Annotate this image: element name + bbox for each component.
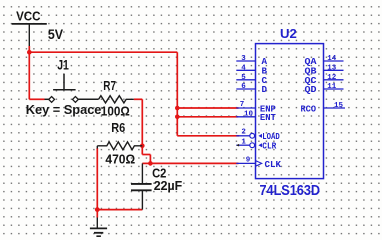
- actuator stem: [63, 74, 65, 90]
- wire jog to CLK node: [142, 154, 150, 156]
- svg-text:ENT: ENT: [260, 112, 276, 123]
- pin 1 stub: [236, 144, 249, 146]
- svg-text:R6: R6: [111, 121, 125, 135]
- pin 10 stub: [236, 116, 255, 118]
- pin 13 stub: [324, 69, 344, 71]
- svg-text:12: 12: [327, 74, 337, 82]
- ground: [90, 218, 107, 237]
- wire VCC to rail (red): [29, 46, 239, 218]
- svg-text:5: 5: [241, 74, 246, 82]
- wire VCC down to switch J1: [28, 52, 30, 99]
- capacitor C2: [131, 163, 152, 209]
- switch terminal diamond left: [49, 97, 55, 103]
- wire R6 left down to ground: [96, 148, 98, 210]
- pin 11 stub: [324, 88, 344, 90]
- svg-text:3: 3: [241, 55, 246, 63]
- pin name ~LOAD arrow: [258, 134, 262, 138]
- R6 left corner stub: [96, 146, 98, 149]
- svg-text:14: 14: [327, 55, 337, 63]
- pin 12 stub: [324, 79, 344, 81]
- svg-text:100Ω: 100Ω: [101, 104, 130, 119]
- svg-text:5V: 5V: [48, 27, 63, 42]
- svg-text:4: 4: [241, 64, 246, 72]
- wire R7 to R6/C2 column: [134, 98, 143, 100]
- left lead: [45, 98, 49, 100]
- svg-text:470Ω: 470Ω: [105, 151, 135, 166]
- switch J1: [45, 74, 99, 100]
- op IC U2 74LS163D body: [256, 44, 324, 179]
- svg-text:QD: QD: [305, 84, 318, 95]
- pin 7 stub: [236, 107, 255, 109]
- right lead: [78, 98, 98, 100]
- svg-text:RCO: RCO: [301, 103, 317, 114]
- svg-text:R7: R7: [103, 79, 116, 93]
- switch terminal diamond right: [73, 97, 79, 103]
- wire to pin 9 CLK: [150, 162, 238, 164]
- wire C2 bottom to ground rail: [97, 209, 142, 211]
- pin 1 active-low bubble: [250, 143, 255, 148]
- pin 3 stub: [236, 60, 255, 62]
- svg-text:D: D: [262, 84, 268, 95]
- junction node pin7 branch: [175, 106, 180, 111]
- junction node CLK/C2: [148, 161, 153, 166]
- pin 4 stub: [236, 69, 255, 71]
- pin 5 stub: [236, 79, 255, 81]
- svg-text:CLK: CLK: [265, 159, 282, 170]
- svg-text:13: 13: [327, 64, 337, 72]
- lever bar: [53, 89, 76, 91]
- junction node R6 right: [140, 144, 145, 149]
- junction node ground rail: [95, 207, 100, 212]
- wire top rail to U2 column: [29, 51, 177, 53]
- svg-text:1: 1: [241, 138, 246, 146]
- VCC power symbol: [12, 24, 47, 46]
- pin name ~CLR arrow: [258, 143, 262, 147]
- pin 1 open end tick: [236, 144, 239, 147]
- wire to pin 7 ENP: [177, 107, 238, 109]
- svg-text:22µF: 22µF: [154, 178, 183, 193]
- resistor R7: [99, 96, 134, 103]
- wire to pin 2 ~LOAD: [177, 135, 239, 137]
- chip pin stubs left: [236, 61, 345, 163]
- pin 2 stub: [236, 135, 249, 137]
- svg-text:J1: J1: [57, 58, 69, 73]
- svg-text:74LS163D: 74LS163D: [260, 182, 321, 199]
- svg-text:Key = Space: Key = Space: [26, 102, 102, 117]
- wire rail down x=177: [176, 52, 178, 136]
- svg-text:6: 6: [241, 83, 246, 91]
- svg-text:15: 15: [334, 102, 344, 110]
- svg-text:9: 9: [246, 156, 251, 164]
- CLK edge triangle: [256, 161, 262, 166]
- svg-text:7: 7: [240, 101, 245, 109]
- junction node at VCC rail: [27, 50, 32, 55]
- pin 2 active-low bubble: [250, 133, 255, 138]
- junction node pin10 branch: [175, 115, 180, 120]
- wire node to C2 branch: [142, 162, 150, 164]
- svg-text:2: 2: [241, 129, 246, 137]
- svg-text:10: 10: [244, 111, 254, 119]
- resistor R6: [97, 142, 142, 150]
- pin 14 stub: [324, 60, 344, 62]
- pin 6 stub: [236, 88, 255, 90]
- svg-text:11: 11: [327, 83, 337, 91]
- svg-text:VCC: VCC: [16, 9, 41, 24]
- svg-text:CLR: CLR: [262, 141, 276, 152]
- svg-text:U2: U2: [280, 27, 297, 41]
- wire to pin 10 ENT: [177, 116, 238, 118]
- pin 15 stub: [324, 107, 346, 109]
- pin 9 stub: [236, 162, 255, 164]
